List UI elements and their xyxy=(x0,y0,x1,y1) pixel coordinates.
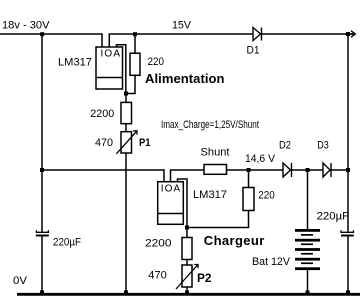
svg-text:D2: D2 xyxy=(279,139,291,151)
svg-text:Imax_Charge=1,25V/Shunt: Imax_Charge=1,25V/Shunt xyxy=(161,119,259,131)
svg-text:0V: 0V xyxy=(13,275,28,287)
svg-text:Bat 12V: Bat 12V xyxy=(252,256,291,268)
svg-text:D1: D1 xyxy=(247,45,260,57)
svg-text:470: 470 xyxy=(148,269,167,281)
svg-text:220: 220 xyxy=(258,189,275,201)
svg-text:P1: P1 xyxy=(139,137,151,149)
svg-text:Chargeur: Chargeur xyxy=(204,233,264,248)
svg-text:14,6 V: 14,6 V xyxy=(245,153,276,165)
svg-text:Alimentation: Alimentation xyxy=(145,71,225,86)
svg-text:470: 470 xyxy=(95,137,113,149)
svg-text:220µF: 220µF xyxy=(317,211,350,223)
svg-text:Shunt: Shunt xyxy=(201,146,230,158)
svg-text:LM317: LM317 xyxy=(58,56,92,68)
svg-text:P2: P2 xyxy=(197,271,212,285)
svg-text:220µF: 220µF xyxy=(53,237,81,249)
svg-text:2200: 2200 xyxy=(145,238,172,250)
svg-text:2200: 2200 xyxy=(90,108,114,120)
svg-text:IOA: IOA xyxy=(161,184,181,195)
svg-text:D3: D3 xyxy=(317,139,329,151)
svg-text:IOA: IOA xyxy=(101,48,121,59)
svg-text:LM317: LM317 xyxy=(193,189,227,201)
svg-text:15V: 15V xyxy=(172,20,192,32)
svg-text:18v - 30V: 18v - 30V xyxy=(2,20,50,32)
svg-text:220: 220 xyxy=(148,56,165,68)
